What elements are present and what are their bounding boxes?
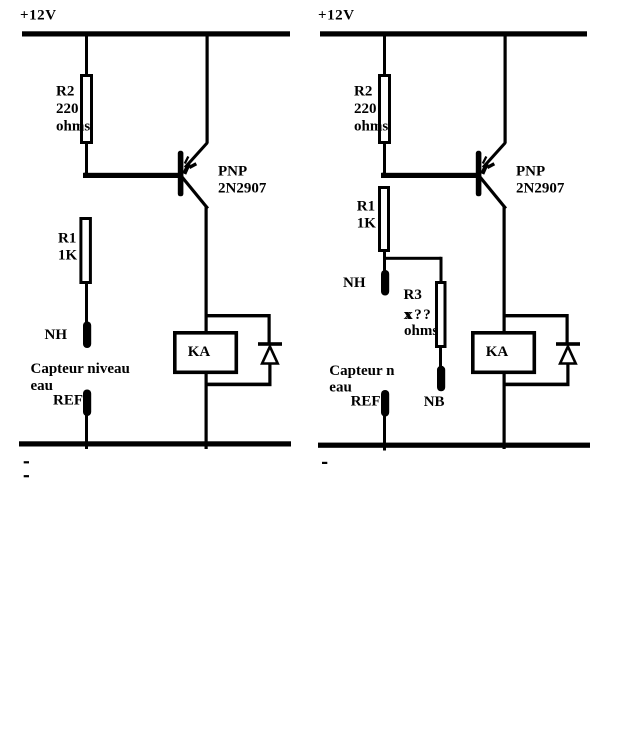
wire collector to relay KA (left) (205, 207, 208, 333)
svg-text:x??: x?? (405, 307, 432, 323)
transistor Q2 emitter arrow barb stub (right) (487, 164, 494, 168)
electrode NH (right) (381, 270, 389, 296)
transistor Q1 collector diagonal (left) (182, 177, 208, 209)
svg-text:220: 220 (354, 101, 377, 117)
wire branch to R3 horizontal (right) (383, 257, 441, 260)
resistor R2 (left) (82, 76, 92, 143)
svg-text:Capteur n: Capteur n (329, 363, 395, 379)
svg-text:REF: REF (53, 392, 83, 408)
svg-text:NB: NB (424, 394, 445, 410)
transistor Q1 emitter arrow barb thin (left) (185, 157, 189, 164)
svg-text:eau: eau (31, 378, 54, 394)
label PNP 2N2907 (right) (516, 164, 565, 197)
svg-text:KA: KA (486, 344, 509, 360)
svg-text:2N2907: 2N2907 (218, 181, 267, 197)
svg-text:eau: eau (329, 379, 352, 395)
svg-text:R2: R2 (56, 84, 74, 100)
label minus dash 2 (left) (24, 475, 29, 477)
label minus dash (right) (322, 462, 327, 464)
wire branch diode bottom (right) (503, 383, 570, 387)
wire +12V rail (left top) (22, 31, 290, 36)
wire R2 to base node (right) (383, 142, 386, 175)
wire base to transistor (left) (83, 173, 179, 178)
relay coil KA box (left) (175, 333, 237, 373)
resistor R2 (right) (380, 76, 390, 143)
svg-text:R3: R3 (404, 287, 422, 303)
label Capteur niveau eau (left) (31, 361, 130, 394)
svg-text:PNP: PNP (516, 164, 545, 180)
svg-text:R1: R1 (58, 231, 76, 247)
svg-text:PNP: PNP (218, 164, 247, 180)
wire KA to ground rail (left) (205, 372, 208, 449)
transistor Q2 emitter diagonal (right) (483, 143, 506, 168)
svg-text:220: 220 (56, 101, 79, 117)
wire collector to relay KA (right) (503, 207, 506, 333)
wire REF to ground rail (right) (383, 415, 386, 451)
wire diode bottom vertical (left) (268, 364, 271, 385)
label Capteur n eau (right) (329, 363, 395, 396)
svg-text:KA: KA (188, 344, 211, 360)
label minus dash 1 (left) (24, 461, 29, 463)
electrode NB (right) (437, 366, 445, 392)
electrode REF (left) (83, 390, 91, 417)
wire R1 to NH electrode (left) (85, 282, 88, 323)
wire rail to R2 (left) (85, 36, 88, 80)
transistor Q1 emitter arrow barb stub (left) (189, 164, 196, 168)
wire rail to R2 (right) (383, 36, 386, 80)
diode D1 cathode bar (left) (258, 342, 282, 346)
value label R2 220 ohms (left) (56, 84, 90, 135)
resistor R1 (left) (81, 219, 91, 283)
value label R2 220 ohms (right) (354, 84, 388, 135)
transistor Q1 base bar (left) (178, 151, 184, 197)
relay coil KA box (right) (473, 333, 535, 373)
diode D1 triangle (left) (262, 347, 278, 364)
svg-text:NH: NH (45, 327, 68, 343)
wire base to transistor (right) (381, 173, 477, 178)
wire R3 to NB electrode (right) (439, 345, 442, 367)
wire R2 to base node (left) (85, 142, 88, 175)
wire branch to diode top (left) (205, 314, 271, 317)
resistor R3 (right) (437, 283, 446, 347)
diode D2 cathode bar (right) (556, 342, 580, 346)
transistor Q2 base bar (right) (476, 151, 482, 197)
wire diode bottom vertical (right) (566, 364, 569, 385)
svg-text:R1: R1 (357, 199, 375, 215)
wire KA to ground rail (right) (503, 372, 506, 449)
svg-text:1K: 1K (357, 216, 377, 232)
svg-text:2N2907: 2N2907 (516, 181, 565, 197)
svg-text:ohms: ohms (354, 118, 388, 134)
svg-text:+12V: +12V (20, 7, 57, 23)
wire ground rail (right bottom) (318, 443, 590, 448)
svg-text:ohms: ohms (56, 118, 90, 134)
node base junction dot (right) (381, 172, 387, 178)
wire R1 to NH electrode (right) (383, 250, 386, 271)
transistor Q2 collector diagonal (right) (480, 177, 506, 209)
svg-text:ohms: ohms (404, 323, 438, 339)
node base junction dot (left) (83, 172, 89, 178)
value label R3 x?? ohms (right) (404, 287, 439, 339)
wire +12V rail (right top) (320, 31, 587, 36)
transistor Q1 emitter arrow shaft (left) (184, 164, 189, 174)
svg-text:1K: 1K (58, 248, 78, 264)
svg-text:+12V: +12V (318, 7, 355, 23)
wire emitter to +12V rail (right) (504, 36, 507, 143)
wire branch to diode top (right) (503, 314, 569, 317)
wire branch to R3 vertical (right) (440, 257, 443, 283)
transistor Q2 emitter arrow shaft (right) (482, 164, 487, 174)
electrode NH (left) (83, 322, 91, 349)
svg-text:REF: REF (351, 394, 381, 410)
wire diode top vertical (left) (268, 314, 271, 344)
wire branch diode bottom (left) (205, 383, 272, 387)
wire ground rail (left bottom) (19, 441, 291, 446)
wire diode top vertical (right) (566, 314, 569, 344)
svg-text:NH: NH (343, 275, 366, 291)
svg-text:R2: R2 (354, 84, 372, 100)
resistor R1 (right) (380, 188, 389, 251)
value label R1 1K (right) (357, 199, 377, 232)
transistor Q2 emitter arrow barb thin (right) (483, 157, 487, 164)
electrode REF (right) (381, 390, 389, 417)
label PNP 2N2907 (left) (218, 164, 267, 197)
wire REF to ground rail (left) (85, 414, 88, 449)
diode D2 triangle (right) (560, 347, 576, 364)
value label R1 1K (left) (58, 231, 78, 264)
wire emitter to +12V rail (left) (206, 36, 209, 143)
transistor Q1 emitter diagonal (left) (185, 143, 208, 168)
svg-text:Capteur niveau: Capteur niveau (31, 361, 130, 377)
